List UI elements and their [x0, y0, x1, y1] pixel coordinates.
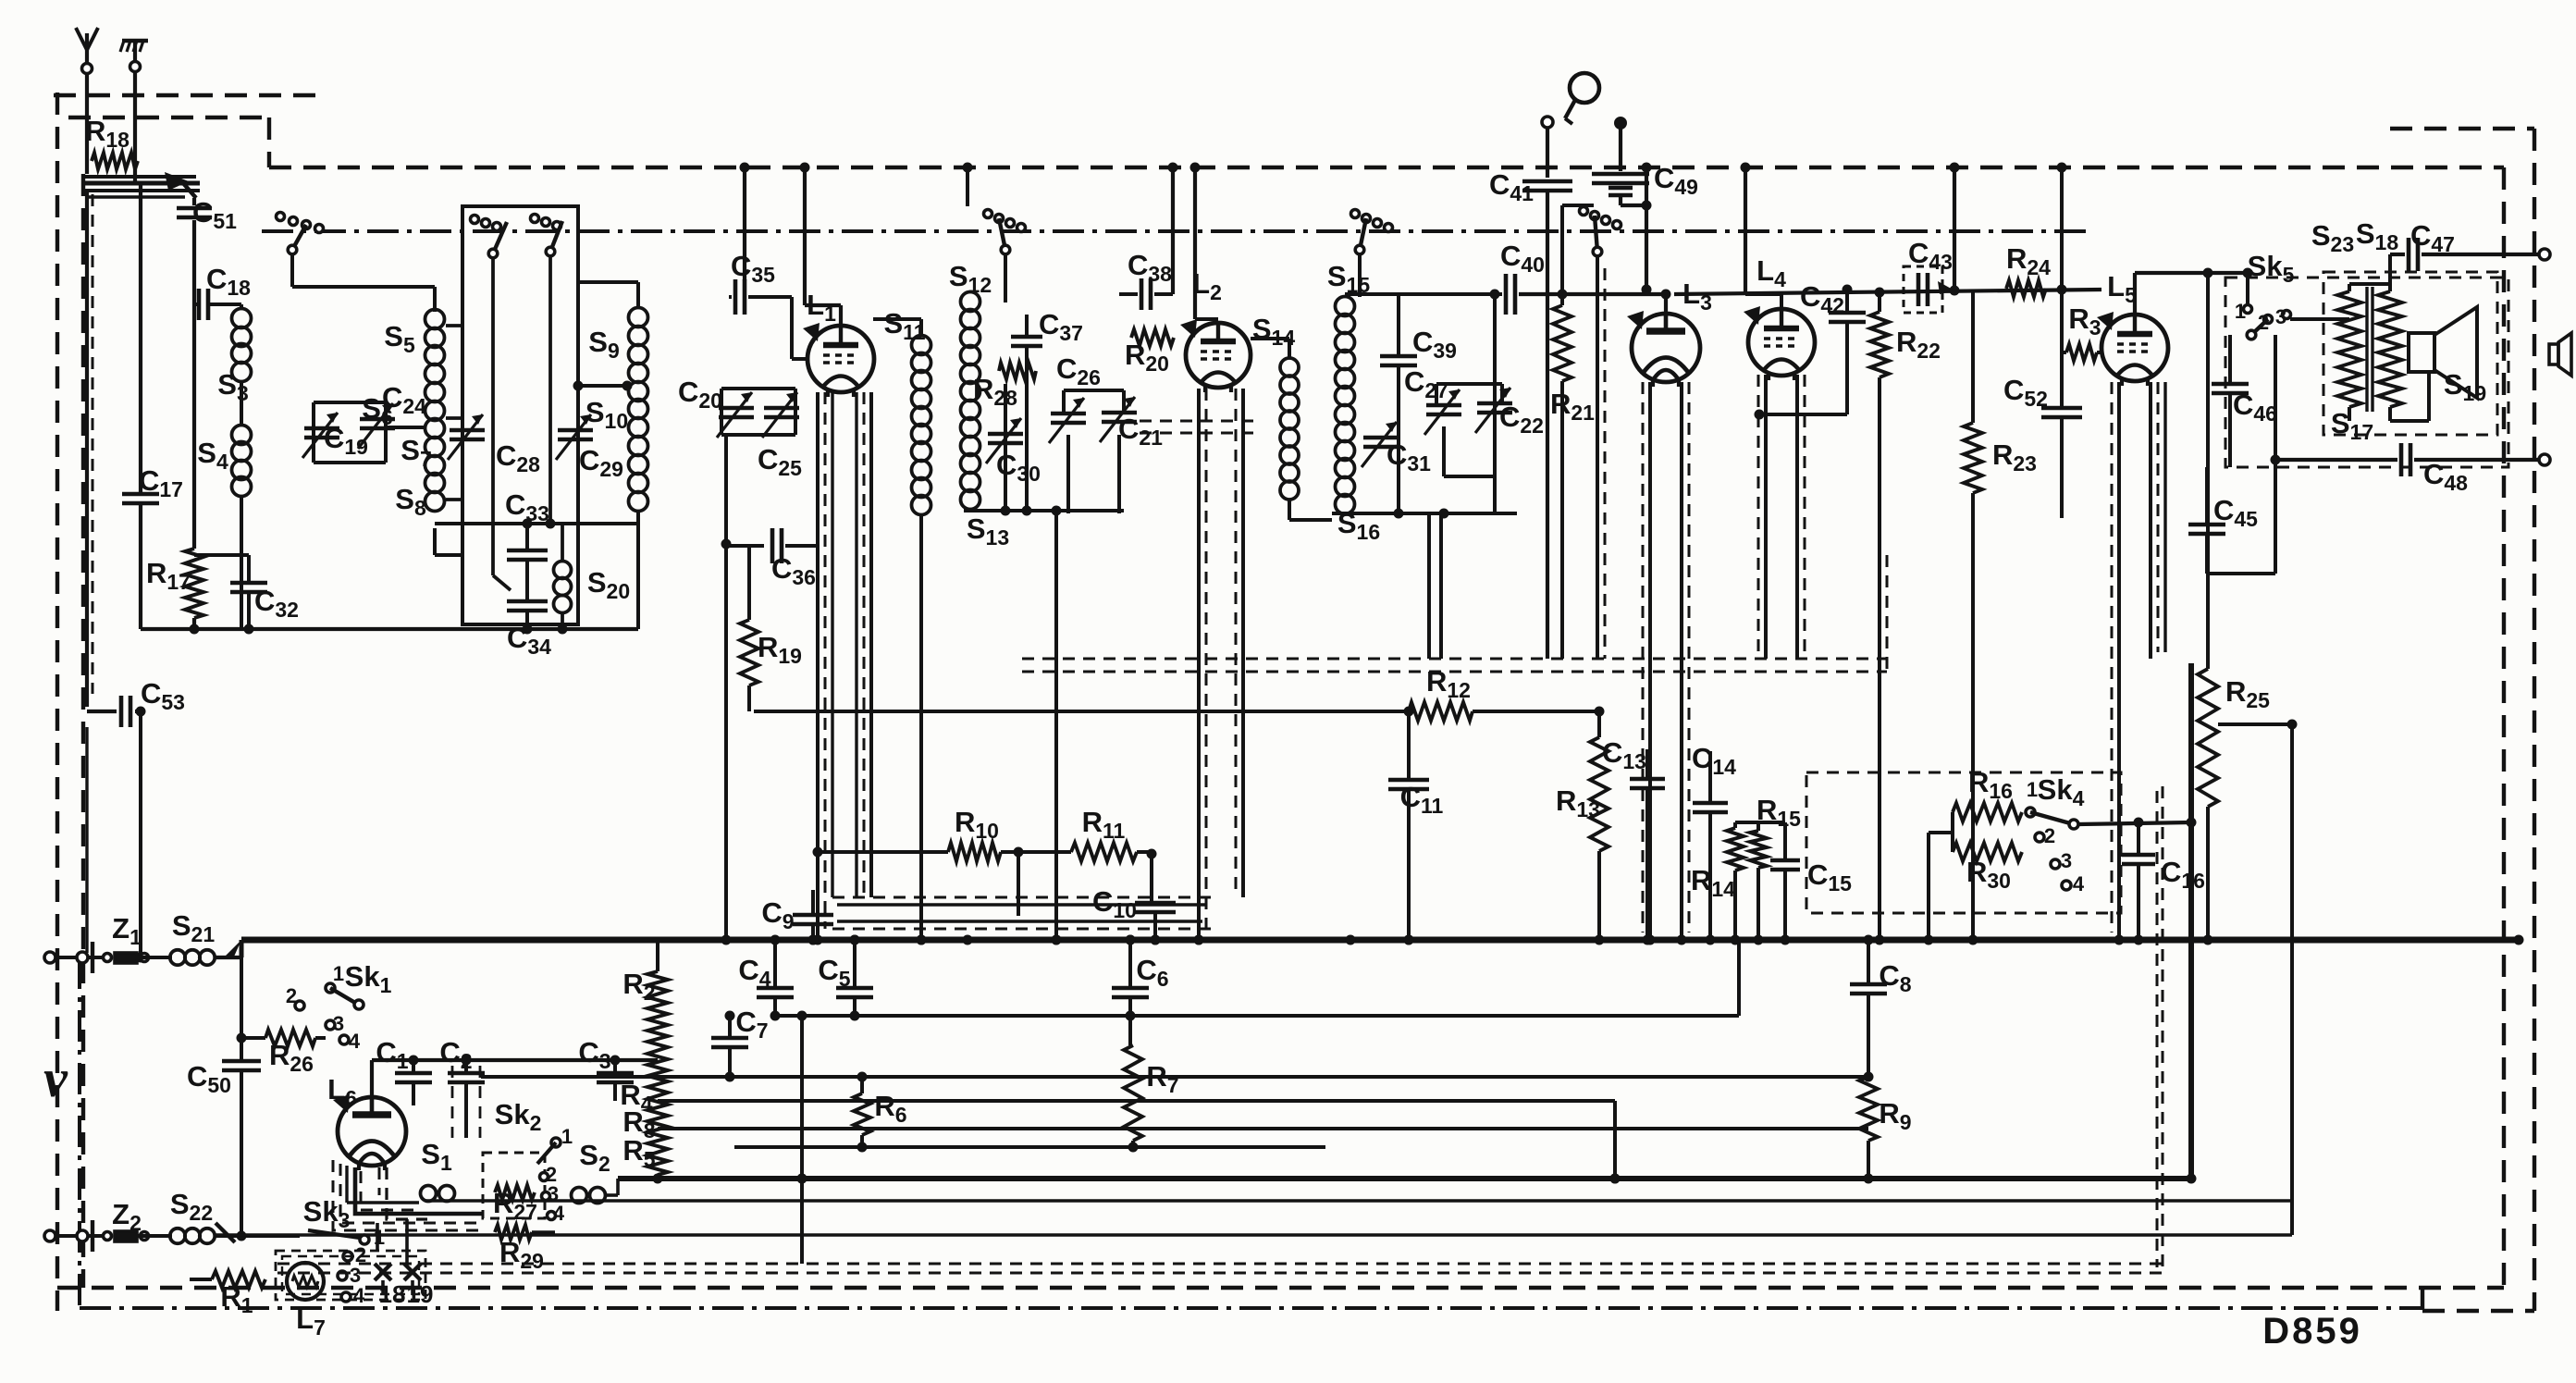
wire	[139, 183, 142, 494]
capacitor C5	[853, 940, 857, 987]
wire long y769	[754, 710, 1409, 713]
capacitor C14	[1708, 751, 1712, 801]
resistor R16	[1953, 803, 2022, 821]
resistor R2 chain	[656, 940, 659, 971]
coil S5 S6 S7 S8	[425, 310, 445, 329]
screened leads valve L1	[816, 392, 820, 940]
svg-text:4: 4	[2073, 872, 2085, 895]
earth terminal E	[130, 62, 141, 72]
heater dashed run	[277, 1263, 2163, 1266]
resistor R15	[1756, 822, 1760, 831]
capacitor C51	[192, 198, 196, 205]
wire earth lead	[133, 72, 137, 183]
svg-text:19: 19	[407, 1280, 434, 1308]
capacitor C41	[1542, 117, 1553, 128]
capacitor C9	[811, 890, 815, 914]
svg-text:v: v	[43, 1048, 68, 1108]
wire	[1054, 511, 1058, 940]
switch wafer S15 top	[1351, 210, 1360, 218]
svg-text:1: 1	[374, 1226, 385, 1249]
wires transformer	[2290, 317, 2349, 321]
capacitor C13	[1645, 749, 1649, 777]
capacitor C8	[1867, 940, 1870, 983]
svg-text:4: 4	[349, 1030, 361, 1053]
capacitor C33	[525, 524, 529, 549]
svg-text:1: 1	[333, 962, 344, 985]
wire second bus	[618, 1176, 2191, 1181]
capacitor C43 (preset)	[1917, 273, 1921, 306]
capacitor C10	[1135, 901, 1176, 906]
capacitor C3	[613, 1060, 617, 1071]
capacitor C36	[726, 544, 764, 548]
resistor R19	[747, 546, 751, 620]
shield box near S14	[1140, 420, 1258, 423]
capacitor C25 (trimmer)	[764, 406, 799, 411]
capacitor C35	[729, 295, 732, 299]
svg-text:1: 1	[561, 1125, 573, 1148]
coil S14	[1280, 358, 1299, 377]
capacitor C2	[464, 1060, 468, 1071]
switch wafer SK near C49	[1580, 207, 1588, 216]
capacitor C17	[122, 492, 159, 497]
resistor R7	[1124, 1045, 1142, 1141]
coil S9 S10	[629, 308, 648, 327]
resistor R24	[2006, 280, 2046, 297]
antenna terminal A	[82, 64, 92, 74]
capacitor C52	[2041, 406, 2082, 411]
capacitor C32	[247, 555, 251, 583]
coil S2	[572, 1188, 587, 1204]
capacitor C31 (trimmer)	[1363, 436, 1399, 440]
resistor R20	[1131, 329, 1174, 346]
wire	[724, 435, 728, 940]
capacitor C20 (trimmer)	[721, 387, 795, 390]
valve L4	[1748, 309, 1815, 376]
svg-text:18: 18	[379, 1280, 406, 1308]
capacitor C24 (trimmer)	[314, 401, 386, 404]
shield box IF bottom	[1022, 658, 1887, 661]
capacitor C15	[1783, 822, 1787, 858]
capacitor C45	[2205, 467, 2209, 524]
wire grid row	[372, 1058, 658, 1062]
resistor R30	[1953, 843, 2022, 861]
X marks 18 19	[375, 1264, 391, 1280]
wire bottom left	[141, 627, 638, 631]
coil S4	[232, 426, 252, 445]
capacitor C38	[1119, 292, 1138, 296]
gramophone pickup Q	[1570, 73, 1599, 103]
resistor R3	[2060, 167, 2064, 407]
resistor R25	[2206, 273, 2210, 669]
transformer primary S23	[2337, 291, 2361, 407]
capacitor C6	[1128, 940, 1132, 987]
svg-text:1: 1	[2235, 300, 2246, 323]
capacitor C28 (trimmer)	[450, 428, 485, 433]
valve L5	[2101, 315, 2168, 381]
capacitor C11	[1407, 711, 1411, 778]
coil S11	[912, 336, 931, 355]
capacitor C50	[222, 1059, 261, 1064]
wire	[2290, 724, 2294, 1235]
screened leads valve L3	[1648, 382, 1652, 940]
screened leads valve L4	[1764, 375, 1768, 659]
coil S12	[961, 292, 980, 312]
capacitor C19 (trimmer)	[304, 426, 339, 431]
capacitor C39	[1397, 294, 1400, 355]
resistor R18	[92, 153, 138, 169]
coil S13 bottom wire	[964, 509, 1124, 512]
wire main earth bus	[241, 937, 2519, 944]
wire S15 bottom	[1332, 512, 1517, 515]
wire HT verticals	[743, 167, 746, 280]
svg-text:1: 1	[2027, 778, 2038, 801]
svg-text:2: 2	[2044, 824, 2055, 847]
coil S15	[1336, 297, 1355, 316]
input Z1 S21	[44, 952, 55, 963]
capacitor C29 (trimmer)	[558, 428, 593, 433]
resistor R23	[1971, 290, 1975, 423]
capacitor C49	[1614, 117, 1627, 130]
svg-text:3: 3	[333, 1012, 344, 1035]
capacitor C18	[197, 289, 202, 320]
capacitor C16	[2137, 822, 2140, 853]
capacitor C34	[525, 560, 529, 600]
output transformer screen box	[2225, 278, 2508, 467]
wire C50 branch	[240, 957, 243, 1059]
barretter lamp L7	[287, 1263, 324, 1300]
resistor R29	[495, 1225, 532, 1240]
capacitor C7	[728, 1016, 732, 1036]
coil S3	[240, 304, 243, 310]
screened leads valve L5	[2117, 382, 2121, 940]
coil S20	[554, 562, 572, 579]
wire anode line	[1664, 290, 1668, 294]
capacitor C48	[2275, 458, 2397, 462]
coil S1	[421, 1186, 437, 1202]
capacitor C26 C21 (trimmers)	[1064, 389, 1124, 392]
capacitor C47	[2390, 253, 2405, 256]
heater wiring L6	[345, 1166, 348, 1203]
valve L2	[1186, 323, 1251, 388]
switch wafer S12 top	[984, 210, 992, 218]
capacitor C37	[1025, 315, 1029, 337]
capacitor C30 (trimmer)	[988, 432, 1023, 437]
resistor R1	[190, 1278, 212, 1281]
resistor R21	[1553, 305, 1571, 381]
wire thick vertical	[2188, 663, 2194, 1179]
resistor R12	[1409, 702, 1473, 721]
wire screen bundle	[85, 181, 200, 186]
input Z2 S22	[44, 1230, 55, 1241]
resistor R17	[185, 549, 203, 618]
wire	[435, 522, 638, 525]
wire vertical x867	[800, 1016, 804, 1264]
valve L3	[1632, 314, 1700, 382]
capacitor C53	[85, 698, 89, 707]
resistor R10 R11	[818, 850, 948, 854]
resistor R9	[1859, 1077, 1878, 1141]
capacitor C1	[412, 1060, 415, 1071]
wire	[292, 285, 435, 289]
resistor R28	[999, 363, 1036, 379]
loudspeaker S19	[2409, 333, 2434, 372]
capacitor C46	[2228, 335, 2232, 383]
svg-text:3: 3	[2275, 305, 2286, 328]
valve L6	[338, 1097, 406, 1166]
transformer core	[2365, 287, 2368, 412]
capacitor C27 C22 (trimmers)	[1436, 382, 1502, 386]
resistor R26	[265, 1030, 315, 1046]
capacitor C40	[1504, 274, 1509, 315]
svg-text:2: 2	[2258, 311, 2269, 334]
screen box SK4	[1806, 772, 2121, 913]
switch wafer Sa	[277, 213, 285, 221]
svg-text:2: 2	[286, 984, 297, 1007]
resistor R13	[1597, 711, 1601, 737]
svg-text:D859: D859	[2262, 1311, 2362, 1352]
resistor R14	[1733, 822, 1737, 828]
svg-text:4: 4	[353, 1284, 365, 1307]
wire long rows	[481, 1075, 1868, 1079]
wire screened aerial lead	[85, 191, 89, 698]
wire antenna lead	[85, 74, 89, 174]
screen box SK3	[276, 1251, 425, 1300]
transformer secondary S18	[2378, 291, 2402, 407]
resistor R27	[495, 1185, 535, 1200]
resistor R6	[860, 1077, 864, 1093]
wire	[1345, 292, 1502, 296]
resistor R22	[1870, 312, 1889, 377]
speaker jack right edge	[2549, 344, 2558, 364]
switch wafer box	[462, 206, 578, 624]
capacitor C4	[773, 940, 777, 987]
wire grid lead	[790, 297, 794, 359]
screened leads valve L2	[1197, 389, 1201, 940]
svg-text:3: 3	[2061, 849, 2072, 872]
wire	[386, 426, 424, 429]
capacitor C42	[1845, 290, 1849, 312]
valve L1	[807, 326, 874, 392]
